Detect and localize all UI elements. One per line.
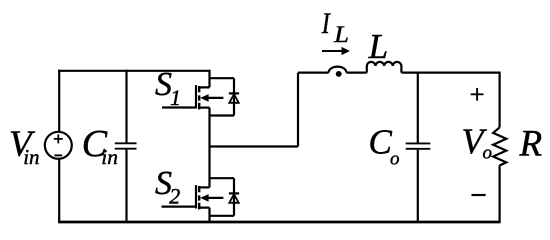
svg-text:R: R <box>519 124 543 165</box>
svg-text:2: 2 <box>169 183 180 208</box>
diode D2 triangle <box>229 194 238 203</box>
wire top input rail <box>58 70 209 72</box>
svg-text:L: L <box>333 23 349 48</box>
transistor S2 source lead <box>199 208 209 222</box>
transistor S2 body arrowhead <box>200 194 208 202</box>
svg-text:I: I <box>321 6 332 39</box>
capacitor Cin top lead <box>125 70 127 143</box>
source Vin circle <box>45 132 72 159</box>
node IL hop arc <box>329 67 347 73</box>
capacitor Co bottom lead <box>417 150 419 222</box>
transistor S2 gate bar <box>195 185 197 208</box>
wire left vertical top <box>58 70 60 132</box>
transistor S2 channel segments <box>198 186 200 209</box>
capacitor Co top lead <box>417 73 419 143</box>
transistor S1 gate lead <box>162 106 196 108</box>
source Vin minus <box>54 154 62 156</box>
label minus output <box>472 194 486 196</box>
svg-text:C: C <box>369 123 393 162</box>
node IL dot <box>336 71 342 77</box>
inductor L coil <box>367 62 402 73</box>
diode D2 loop wires <box>210 178 235 216</box>
transistor S1 drain lead <box>199 70 209 88</box>
svg-text:in: in <box>23 145 39 169</box>
wire left vertical bottom <box>58 159 60 223</box>
wire output right bottom <box>499 166 501 223</box>
transistor S1 body arrow line <box>203 97 223 99</box>
svg-text:1: 1 <box>170 85 181 110</box>
svg-text:in: in <box>101 145 118 169</box>
capacitor Co plates <box>406 143 431 148</box>
source Vin plus <box>54 134 63 143</box>
svg-text:L: L <box>368 27 388 66</box>
wire hop to inductor <box>346 71 366 73</box>
svg-text:o: o <box>483 143 493 164</box>
svg-text:o: o <box>390 149 400 170</box>
wire inductor to output <box>401 71 500 73</box>
label plus output <box>471 88 484 101</box>
wire midpoint node to riser <box>210 73 299 147</box>
transistor S2 gate lead <box>162 206 197 208</box>
wire bottom rail <box>58 221 500 224</box>
diode D1 loop wires <box>210 78 235 115</box>
resistor R zigzag <box>493 128 506 166</box>
label IL arrow <box>322 50 344 52</box>
wire output right top <box>499 72 501 128</box>
transistor S1 channel segments <box>198 86 200 109</box>
capacitor Cin bottom lead <box>125 150 127 222</box>
wire S1 source to S2 drain <box>208 108 210 188</box>
transistor S1 source lead <box>199 106 209 108</box>
diode D2 cathode bar <box>229 192 239 194</box>
transistor S1 gate bar <box>195 85 197 108</box>
diode D1 cathode bar <box>229 92 239 94</box>
wire riser to hop <box>298 71 329 73</box>
transistor S2 drain lead <box>199 186 209 188</box>
diode D1 triangle <box>229 94 238 103</box>
capacitor Cin plates <box>115 143 137 148</box>
transistor S1 body arrowhead <box>200 94 208 102</box>
transistor S2 body arrow line <box>203 197 223 199</box>
